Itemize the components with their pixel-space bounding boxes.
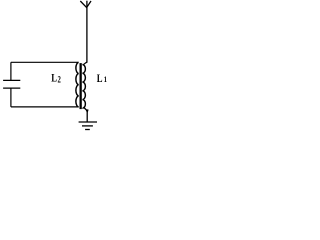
svg-text:L: L <box>51 73 57 85</box>
svg-text:2: 2 <box>58 74 61 84</box>
svg-text:L: L <box>97 73 103 85</box>
svg-text:1: 1 <box>104 74 107 84</box>
